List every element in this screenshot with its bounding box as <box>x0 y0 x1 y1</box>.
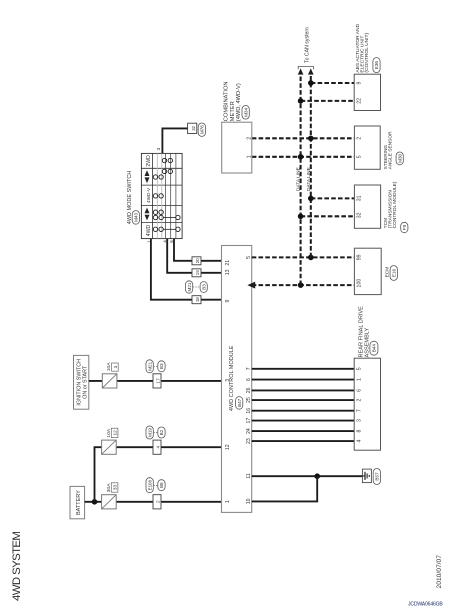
svg-text:DATA LINE: DATA LINE <box>306 167 312 191</box>
connector M43 <box>132 211 139 225</box>
svg-text:4: 4 <box>155 446 161 449</box>
connector B57 <box>373 469 380 485</box>
rear final drive assembly M1 <box>354 358 380 450</box>
wire battery to module pin 1 <box>85 501 222 503</box>
connector box pin 20 <box>192 257 201 265</box>
node meter CAN-B tap <box>308 135 314 141</box>
svg-text:ON or START: ON or START <box>83 365 89 399</box>
connector box pin 2 on battery wire <box>153 495 161 509</box>
combination meter label <box>223 81 242 121</box>
wires module to rear final drive assembly <box>252 369 355 441</box>
battery B1 <box>70 486 85 518</box>
svg-text:COMBINATION: COMBINATION <box>223 81 229 121</box>
connector box pin 18 <box>192 296 201 304</box>
svg-text:2010/07/07: 2010/07/07 <box>436 555 443 589</box>
ABS actuator label <box>355 23 370 72</box>
wire ignition to module pin 3 <box>89 380 222 382</box>
connector M30 <box>396 152 403 165</box>
svg-text:E16: E16 <box>391 268 396 277</box>
wire meter pin 2 to steering sensor pin 2 <box>252 137 355 139</box>
connector M19 <box>146 426 153 439</box>
svg-text:31: 31 <box>356 195 362 201</box>
wire CAN bus line A <box>300 75 302 285</box>
arrow into module <box>247 282 255 289</box>
svg-text:1: 1 <box>225 500 231 503</box>
svg-text:2: 2 <box>155 500 161 503</box>
rear final drive label <box>358 306 370 358</box>
connector box pin 17 on ignition wire <box>153 374 161 388</box>
svg-text:B44: B44 <box>372 344 377 353</box>
svg-text:B8: B8 <box>159 482 164 488</box>
wire connector link M19-B2 <box>154 432 158 434</box>
wire connector link M21-B3 <box>154 365 158 367</box>
svg-text:DATA LINE: DATA LINE <box>296 167 302 191</box>
steering angle sensor U4 <box>354 126 380 169</box>
wire ABS pin 22 to CAN bus A <box>301 100 355 102</box>
svg-text:BATTERY: BATTERY <box>76 490 82 515</box>
fuse 30A No.33 <box>102 483 118 509</box>
ground <box>362 469 371 483</box>
svg-text:(4WD, 4WD-V): (4WD, 4WD-V) <box>236 83 242 121</box>
svg-text:100: 100 <box>356 279 362 288</box>
wire connector link E108-B8 <box>154 484 158 486</box>
svg-text:M21: M21 <box>187 282 192 291</box>
wire switch pin 4 to module pin 13 <box>167 239 221 273</box>
4WD mode switch contact table <box>141 153 182 238</box>
svg-text:99: 99 <box>356 254 362 260</box>
module bottom pin labels <box>246 256 252 504</box>
connector F9 <box>401 222 408 232</box>
connector B2 <box>158 427 165 438</box>
svg-text:2: 2 <box>246 137 252 140</box>
svg-text:B3: B3 <box>159 363 164 369</box>
svg-text:E108: E108 <box>147 480 152 491</box>
svg-text:18: 18 <box>195 297 200 302</box>
wire switch pin 3 to illumination connector <box>162 128 191 153</box>
svg-text:6: 6 <box>246 378 252 381</box>
svg-text:4WD: 4WD <box>146 224 152 236</box>
svg-text:8: 8 <box>356 430 362 433</box>
node CAN-L tap <box>298 282 304 288</box>
svg-text:32: 32 <box>191 125 196 130</box>
node TCM CAN-B tap <box>308 196 314 202</box>
svg-text:B57: B57 <box>375 472 380 481</box>
node ground junction <box>314 473 320 479</box>
svg-text:32: 32 <box>356 212 362 218</box>
svg-text:To CAN system: To CAN system <box>304 27 310 63</box>
node battery junction <box>92 499 98 505</box>
node ABS CAN-A tap <box>298 98 304 104</box>
node TCM CAN-A tap <box>298 213 304 219</box>
arrow CAN bus A to CAN system <box>298 68 304 74</box>
svg-text:M19: M19 <box>147 428 152 437</box>
svg-text:7: 7 <box>246 367 252 370</box>
svg-text:7: 7 <box>356 409 362 412</box>
svg-text:IGNITION SWITCH: IGNITION SWITCH <box>76 359 82 406</box>
wire connector link M21-B3 switch harness <box>193 286 200 288</box>
svg-text:3: 3 <box>225 379 231 382</box>
svg-text:22: 22 <box>356 98 362 104</box>
connector B47 <box>236 397 243 410</box>
connector B44 <box>370 341 378 355</box>
module top pin labels <box>225 260 231 504</box>
svg-text:19: 19 <box>195 270 200 275</box>
svg-text:B3: B3 <box>201 284 206 290</box>
svg-text:17: 17 <box>155 378 161 384</box>
svg-text:9: 9 <box>225 300 231 303</box>
wire CAN-H module pin 5 to ECM pin 99 <box>252 256 355 258</box>
svg-text:B2: B2 <box>159 429 164 435</box>
connector B8 <box>158 480 165 491</box>
svg-text:17: 17 <box>246 418 252 424</box>
svg-text:33: 33 <box>113 485 118 491</box>
svg-text:2: 2 <box>356 399 362 402</box>
svg-text:B47: B47 <box>237 398 242 407</box>
svg-text:20: 20 <box>195 258 200 263</box>
connector box pin 4 on battery branch <box>153 440 161 454</box>
wire CAN-L module pin 4 to ECM pin 100 <box>252 284 355 286</box>
svg-text:4WD SYSTEM: 4WD SYSTEM <box>11 532 23 601</box>
svg-text:12: 12 <box>225 444 231 450</box>
connector M34 <box>242 106 249 120</box>
connector M21 <box>146 360 153 373</box>
svg-text:26: 26 <box>246 387 252 393</box>
svg-text:3: 3 <box>156 147 161 150</box>
ignition switch S1 <box>74 355 89 409</box>
wire switch pin 6 to module pin 21 <box>174 239 222 261</box>
svg-text:4WD-V: 4WD-V <box>146 187 151 203</box>
svg-text:M21: M21 <box>147 361 152 370</box>
svg-text:CONTROL MODULE): CONTROL MODULE) <box>392 181 398 228</box>
svg-text:JCDWA0646GB: JCDWA0646GB <box>408 602 443 608</box>
svg-text:(CONTROL UNIT): (CONTROL UNIT) <box>364 32 370 72</box>
bracket to CAN system <box>298 66 313 69</box>
svg-text:F9: F9 <box>402 224 407 230</box>
wire switch pin 1 to module pin 9 <box>151 239 222 300</box>
4WD control module U1 <box>222 246 252 513</box>
svg-text:25: 25 <box>246 397 252 403</box>
svg-text:4: 4 <box>356 440 362 443</box>
svg-text:24: 24 <box>246 428 252 434</box>
svg-text:5: 5 <box>246 256 252 259</box>
svg-text:4WD CONTROL MODULE: 4WD CONTROL MODULE <box>229 345 235 411</box>
svg-text:E36: E36 <box>374 61 379 70</box>
ABS actuator U5 <box>354 74 380 110</box>
wire meter pin 1 to steering sensor pin 5 <box>252 156 355 158</box>
svg-text:3: 3 <box>356 419 362 422</box>
connector M21 switch harness <box>186 281 193 293</box>
svg-text:16: 16 <box>246 408 252 414</box>
svg-text:2WD: 2WD <box>146 155 152 167</box>
wire battery branch to module pin 12 <box>95 447 222 502</box>
connector M76 <box>198 123 205 136</box>
wire module pin 11 to ground <box>252 475 363 477</box>
svg-text:12: 12 <box>113 430 118 436</box>
node CAN-H tap <box>308 255 314 261</box>
svg-text:M30: M30 <box>397 153 402 162</box>
svg-text:M43: M43 <box>134 212 139 221</box>
arrow CAN bus B to CAN system <box>308 68 314 74</box>
steering angle sensor label <box>383 131 394 169</box>
connector E108 <box>146 478 153 493</box>
node ABS CAN-B tap <box>308 80 314 86</box>
connector B3 <box>158 361 165 372</box>
fuse 10A No.3 <box>102 362 118 388</box>
connector B3 switch harness <box>200 282 207 293</box>
svg-text:1: 1 <box>246 155 252 158</box>
svg-text:ANGLE SENSOR: ANGLE SENSOR <box>388 131 394 169</box>
wire TCM pin 32 to CAN bus A <box>301 215 355 217</box>
TCM U3 <box>354 185 380 228</box>
fuse 10A No.12 <box>102 428 118 454</box>
wire TCM pin 31 to CAN bus B <box>311 197 355 199</box>
svg-text:11: 11 <box>246 473 252 478</box>
wire module pin 10 to ground junction <box>252 476 318 501</box>
svg-text:10: 10 <box>246 498 252 504</box>
node meter CAN-A tap <box>298 154 304 160</box>
svg-text:REAR FINAL DRIVE: REAR FINAL DRIVE <box>358 306 364 358</box>
svg-text:5: 5 <box>356 155 362 158</box>
svg-text:3: 3 <box>113 365 118 368</box>
combination meter M34 <box>222 122 253 173</box>
svg-text:1: 1 <box>356 378 362 381</box>
svg-text:23: 23 <box>246 438 252 444</box>
svg-text:ECM: ECM <box>384 267 390 278</box>
ECM U2 <box>354 248 381 294</box>
svg-text:METER: METER <box>230 101 236 121</box>
svg-text:M34: M34 <box>243 107 248 116</box>
svg-text:ASSEMBLY: ASSEMBLY <box>364 327 370 357</box>
connector E36 <box>373 58 380 73</box>
svg-text:M76: M76 <box>200 125 205 134</box>
svg-text:9: 9 <box>356 81 362 84</box>
connector box pin 19 <box>192 269 201 277</box>
svg-text:2: 2 <box>356 137 362 140</box>
svg-text:13: 13 <box>225 269 231 275</box>
svg-text:6: 6 <box>356 389 362 392</box>
TCM label <box>383 181 398 228</box>
svg-text:21: 21 <box>225 260 231 266</box>
wire CAN bus line B <box>310 75 312 258</box>
connector E16 <box>390 266 397 281</box>
wire ABS pin 9 to CAN bus B <box>311 82 354 84</box>
svg-text:5: 5 <box>356 367 362 370</box>
illumination connector box pin 32 <box>188 123 197 133</box>
